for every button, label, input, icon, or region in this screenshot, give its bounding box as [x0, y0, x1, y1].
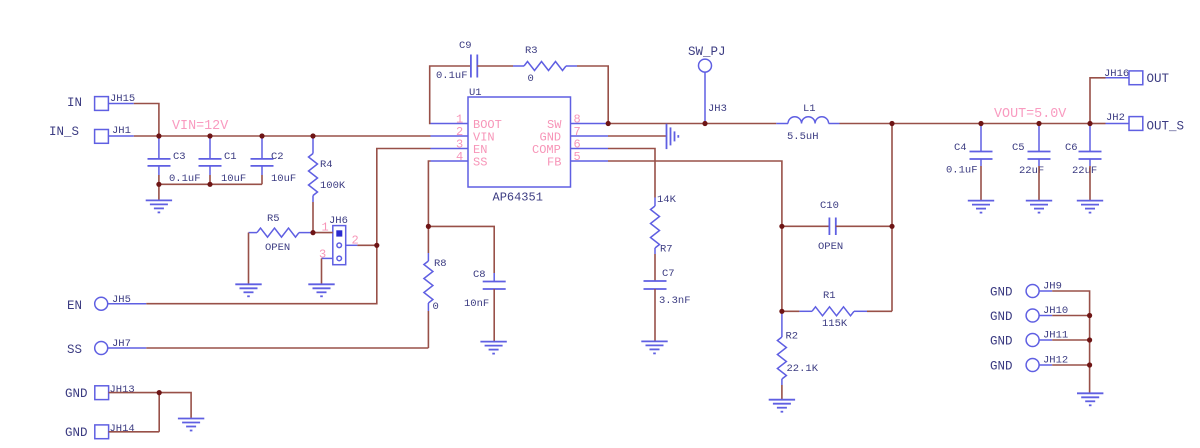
svg-text:0.1uF: 0.1uF [436, 70, 468, 82]
pin 7 GND [571, 135, 609, 137]
svg-text:IN_S: IN_S [49, 125, 79, 139]
svg-text:FB: FB [547, 156, 561, 170]
svg-text:IN: IN [67, 96, 82, 110]
svg-text:100K: 100K [320, 180, 346, 192]
node junction EN/JH6 pin2 [374, 243, 379, 248]
svg-text:5: 5 [574, 150, 581, 164]
ground C5 [1026, 201, 1052, 213]
node junction JH1/C3 [156, 133, 161, 138]
wire JH13 [109, 392, 160, 394]
pin stub JH15 [108, 103, 133, 105]
ground JH6 [308, 284, 334, 296]
svg-text:JH1: JH1 [112, 125, 131, 137]
svg-text:OPEN: OPEN [818, 241, 843, 253]
wire JH10 [1039, 315, 1052, 317]
svg-text:SS: SS [67, 343, 82, 357]
svg-text:OPEN: OPEN [265, 242, 290, 254]
resistor R1 [799, 290, 867, 330]
svg-text:0.1uF: 0.1uF [946, 165, 978, 177]
ground JH13/14 [178, 419, 204, 431]
pin stub JH6 pin2 [346, 244, 358, 246]
wire R1 left lead wire [782, 310, 800, 312]
IC U1 AP64351 [468, 87, 571, 205]
svg-text:R1: R1 [823, 290, 836, 302]
node junction C1 tie [207, 182, 212, 187]
connector JH12 circle [1026, 359, 1039, 372]
svg-text:R2: R2 [786, 331, 799, 343]
wire JH9 [1039, 290, 1052, 292]
svg-text:EN: EN [67, 299, 82, 313]
wire JH12 to bus [1052, 364, 1089, 366]
node junction FB tap [889, 121, 894, 126]
svg-text:R5: R5 [267, 213, 280, 225]
wire SS net [146, 347, 428, 349]
ground input caps [146, 200, 172, 212]
ground C6 [1077, 201, 1103, 213]
capacitor C9 [436, 40, 477, 82]
pin stub JH5 [108, 303, 147, 305]
wire GND pin to ground [608, 135, 667, 137]
svg-text:GND: GND [990, 360, 1013, 374]
svg-text:OUT: OUT [1147, 72, 1170, 86]
wire C4 to ground [980, 166, 982, 200]
svg-text:GND: GND [990, 286, 1013, 300]
wire VOUT rail [840, 123, 1091, 125]
svg-text:0: 0 [528, 73, 534, 85]
node junction JH12 [1087, 362, 1092, 367]
wire FB to divider [608, 161, 782, 226]
wire JH9 to bus [1052, 291, 1089, 393]
wire C8 branch [428, 226, 494, 273]
svg-text:115K: 115K [822, 318, 848, 330]
svg-text:C6: C6 [1065, 142, 1078, 154]
node junction JH11 [1087, 337, 1092, 342]
pin stub OUT_S [1106, 123, 1130, 125]
node junction R4 [310, 133, 315, 138]
wire R3 to SW node [577, 66, 608, 124]
connector JH15 square [95, 97, 109, 111]
connector JH14 square [95, 425, 109, 439]
wire OUT_S stub [1090, 123, 1106, 125]
connector JH10 circle [1026, 309, 1039, 322]
svg-text:L1: L1 [803, 103, 816, 115]
resistor R8 [424, 226, 447, 313]
wire JH6 pin2 to EN net [357, 244, 376, 246]
node junction C10 left [779, 224, 784, 229]
svg-text:C5: C5 [1012, 142, 1025, 154]
pin stub JH6 pin3 [322, 257, 333, 259]
svg-text:C7: C7 [662, 268, 675, 280]
wire to input ground [158, 184, 160, 200]
connector JH1 square [95, 130, 109, 144]
wire C1 bottom [209, 175, 211, 184]
wire FB down to R1 node [781, 226, 783, 311]
svg-text:GND: GND [65, 387, 88, 401]
svg-text:VOUT=5.0V: VOUT=5.0V [994, 107, 1066, 122]
capacitor C2 [251, 136, 297, 185]
node junction C4 [978, 121, 983, 126]
svg-text:C1: C1 [224, 151, 237, 163]
svg-text:GND: GND [990, 335, 1013, 349]
svg-text:C3: C3 [173, 151, 186, 163]
connector JH5 circle [95, 297, 108, 310]
wire OUT riser [1090, 78, 1106, 124]
svg-text:4: 4 [456, 150, 463, 164]
svg-text:10uF: 10uF [221, 173, 246, 185]
ground C8 [480, 342, 506, 354]
node junction C5 [1036, 121, 1041, 126]
svg-text:JH2: JH2 [1106, 112, 1125, 124]
svg-text:JH13: JH13 [110, 384, 135, 396]
svg-text:3.3nF: 3.3nF [659, 295, 691, 307]
node junction SW/R3 [606, 121, 611, 126]
wire to left ground [159, 393, 191, 418]
wire cap bottoms tie [159, 183, 262, 185]
wire JH13 to JH14 [158, 393, 160, 432]
wire JH12 [1039, 364, 1052, 366]
connector JH2 square [1129, 117, 1143, 131]
capacitor C6 [1065, 124, 1102, 178]
svg-text:SS: SS [473, 156, 487, 170]
ground R2 [769, 400, 795, 412]
svg-text:14K: 14K [657, 194, 677, 206]
wire VOUT sense drop [891, 124, 893, 312]
svg-text:0: 0 [433, 301, 439, 313]
wire R1 right [867, 310, 892, 312]
wire JH15 to VIN rail [134, 104, 159, 137]
wire C5 to ground [1038, 166, 1040, 200]
capacitor C8 [464, 269, 506, 310]
capacitor C5 [1012, 124, 1051, 178]
wire C2 bottom [261, 175, 263, 184]
wire JH6 pin1 [313, 232, 333, 234]
svg-text:GND: GND [65, 426, 88, 440]
wire R5 left to ground [248, 233, 250, 284]
pin 6 COMP [571, 148, 609, 150]
pin stub JH7 [108, 347, 147, 349]
pin 2 VIN [431, 135, 469, 137]
svg-text:C10: C10 [820, 200, 839, 212]
svg-text:10nF: 10nF [464, 298, 489, 310]
svg-text:JH14: JH14 [110, 423, 135, 435]
wire C7 to ground [654, 289, 656, 341]
resistor R7 [651, 194, 677, 256]
node junction C2 [259, 133, 264, 138]
wire COMP to R7 [608, 149, 655, 198]
svg-text:JH3: JH3 [708, 103, 727, 115]
wire C10 right [836, 225, 892, 227]
svg-text:3: 3 [319, 248, 326, 262]
node junction R8/C8 [426, 224, 431, 229]
resistor R4 [309, 136, 346, 202]
wire EN net [146, 149, 430, 304]
pin 8 SW [571, 123, 609, 125]
wire C8 to ground [493, 289, 495, 341]
connector JH6 header [329, 215, 348, 265]
testpoint SW_PJ [688, 45, 727, 124]
svg-text:22.1K: 22.1K [787, 363, 819, 375]
node junction C10 right [889, 224, 894, 229]
wire C3 bottom [158, 175, 160, 184]
wire BOOT pin up [430, 66, 471, 124]
wire R4 to R5 node [312, 202, 314, 233]
node junction C1 [207, 133, 212, 138]
wire C6 to ground [1089, 166, 1091, 200]
node junction C6/OUT [1087, 121, 1092, 126]
node junction SW_PJ [702, 121, 707, 126]
svg-text:22uF: 22uF [1019, 165, 1044, 177]
pin 4 SS [431, 160, 469, 162]
wire C9 to R3 [477, 65, 513, 67]
svg-text:C9: C9 [459, 40, 472, 52]
ground sideways U1 GND pin [667, 124, 679, 149]
resistor R2 [777, 311, 818, 385]
pin stub OUT [1106, 77, 1130, 79]
svg-text:C4: C4 [954, 142, 967, 154]
ground right GND bus [1077, 393, 1103, 405]
wire C10 left [782, 225, 830, 227]
wire JH11 [1039, 339, 1052, 341]
pin 5 FB [571, 160, 609, 162]
wire JH10 to bus [1052, 315, 1089, 317]
capacitor C10 [818, 200, 843, 253]
svg-text:R7: R7 [660, 244, 673, 256]
svg-text:VIN=12V: VIN=12V [172, 119, 228, 134]
capacitor C3 [148, 136, 201, 185]
pin 1 BOOT [431, 123, 469, 125]
svg-text:AP64351: AP64351 [493, 191, 543, 205]
capacitor C1 [199, 136, 247, 185]
wire R8 to SS net [427, 311, 429, 348]
svg-text:22uF: 22uF [1072, 165, 1097, 177]
wire SS pin to node [428, 161, 430, 226]
svg-text:JH16: JH16 [1104, 68, 1129, 80]
svg-text:C8: C8 [473, 269, 486, 281]
capacitor C7 [644, 268, 691, 307]
node junction R1/R2 [779, 309, 784, 314]
wire R7 to C7 [654, 254, 656, 281]
resistor R3 [513, 45, 577, 85]
svg-text:10uF: 10uF [271, 173, 296, 185]
pin 3 EN [431, 148, 469, 150]
svg-text:0.1uF: 0.1uF [169, 173, 201, 185]
wire JH14 [109, 431, 160, 433]
ground R5 [235, 284, 261, 296]
node junction R4/R5/JH6 [310, 230, 315, 235]
svg-text:R4: R4 [320, 159, 333, 171]
svg-text:R8: R8 [434, 258, 447, 270]
svg-text:C2: C2 [271, 151, 284, 163]
wire R2 to ground [781, 385, 783, 399]
node junction JH10 [1087, 313, 1092, 318]
connector JH7 circle [95, 342, 108, 355]
svg-text:SW_PJ: SW_PJ [688, 45, 726, 59]
ground C4 [968, 201, 994, 213]
connector JH13 square [95, 386, 109, 400]
connector JH9 circle [1026, 285, 1039, 298]
pin stub JH1 [108, 135, 134, 137]
connector JH11 circle [1026, 334, 1039, 347]
node junction C3 gnd [156, 182, 161, 187]
ground C7 [641, 341, 667, 353]
wire SW rail [608, 123, 776, 125]
wire VIN rail [134, 135, 431, 137]
inductor L1 [776, 103, 839, 143]
svg-text:R3: R3 [525, 45, 538, 57]
resistor R5 [249, 213, 314, 254]
svg-text:OUT_S: OUT_S [1147, 120, 1185, 134]
node junction JH13/JH14 [157, 390, 162, 395]
wire JH6 pin3 to ground [321, 258, 323, 283]
capacitor C4 [946, 124, 993, 177]
svg-text:GND: GND [990, 310, 1013, 324]
svg-text:5.5uH: 5.5uH [787, 131, 819, 143]
wire JH11 to bus [1052, 339, 1089, 341]
connector JH16 square [1129, 71, 1143, 85]
